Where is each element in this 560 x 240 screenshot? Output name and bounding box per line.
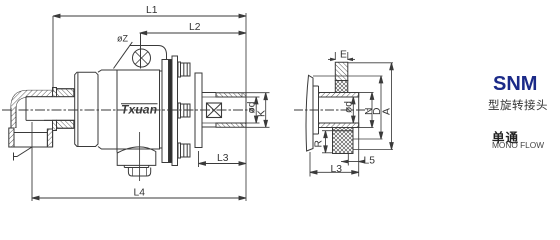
main barrel: [98, 70, 160, 149]
elbow bell bottom band: [53, 120, 57, 130]
Txuan logo: [121, 103, 158, 117]
bottom plug: [128, 168, 150, 177]
cylinder walls: [319, 93, 359, 98]
elbow leg centerline: [31, 122, 33, 147]
svg-text:A: A: [382, 108, 393, 115]
svg-text:L4: L4: [134, 188, 146, 199]
E dim: [334, 52, 336, 60]
E column: [335, 62, 348, 80]
plug centerline: [139, 132, 141, 181]
centerline main axis: [2, 109, 254, 111]
svg-text:L2: L2: [189, 22, 201, 33]
od dim: [352, 97, 354, 123]
svg-text:R: R: [314, 140, 325, 147]
svg-text:øZ: øZ: [117, 34, 128, 44]
R dim: [325, 131, 327, 153]
svg-text:K: K: [257, 110, 268, 117]
disc: [306, 75, 313, 151]
svg-text:L3: L3: [217, 153, 229, 164]
svg-text:E: E: [340, 50, 347, 61]
oZ leader extension: [130, 42, 133, 46]
side centerline: [294, 109, 368, 111]
rotating disc: [195, 73, 202, 148]
svg-text:ød: ød: [344, 101, 355, 113]
bottom block: [333, 128, 354, 154]
D dim: [313, 75, 383, 77]
elbow socket bell bottom: [9, 128, 14, 147]
dimension texts: [117, 5, 393, 199]
L3 main: [199, 151, 247, 167]
flange plates: [160, 70, 163, 72]
hub cylinder: [202, 92, 216, 94]
L5: [347, 154, 349, 166]
thread X-box: [207, 103, 222, 118]
pipe bore lines: [26, 96, 75, 98]
svg-text:L5: L5: [364, 156, 376, 167]
nipple: [216, 93, 246, 97]
L3 side: [309, 152, 311, 177]
elbow bell top band: [53, 88, 57, 97]
grease boss: [114, 46, 167, 69]
hub neck: [313, 85, 319, 87]
elbow L1 body: [11, 90, 53, 107]
svg-text:L1: L1: [146, 5, 158, 16]
locknut top band: [57, 89, 74, 97]
right extension: [245, 13, 247, 93]
svg-text:Txuan: Txuan: [121, 103, 157, 117]
L1: [53, 14, 246, 92]
grease circle: [133, 49, 151, 67]
bottom boss: [117, 147, 156, 166]
body cap: [75, 72, 98, 146]
leader mark bottom-left: [14, 147, 33, 157]
L4: [32, 147, 246, 201]
bolts/nuts: [178, 62, 190, 77]
svg-text:L3: L3: [331, 164, 343, 175]
dims: [310, 52, 393, 177]
A dim: [348, 62, 393, 64]
od K dims right: [246, 93, 270, 128]
L2: [140, 31, 246, 35]
N dim: [359, 92, 374, 94]
right text block: [493, 73, 537, 96]
socket internal shoulder: [14, 132, 47, 134]
